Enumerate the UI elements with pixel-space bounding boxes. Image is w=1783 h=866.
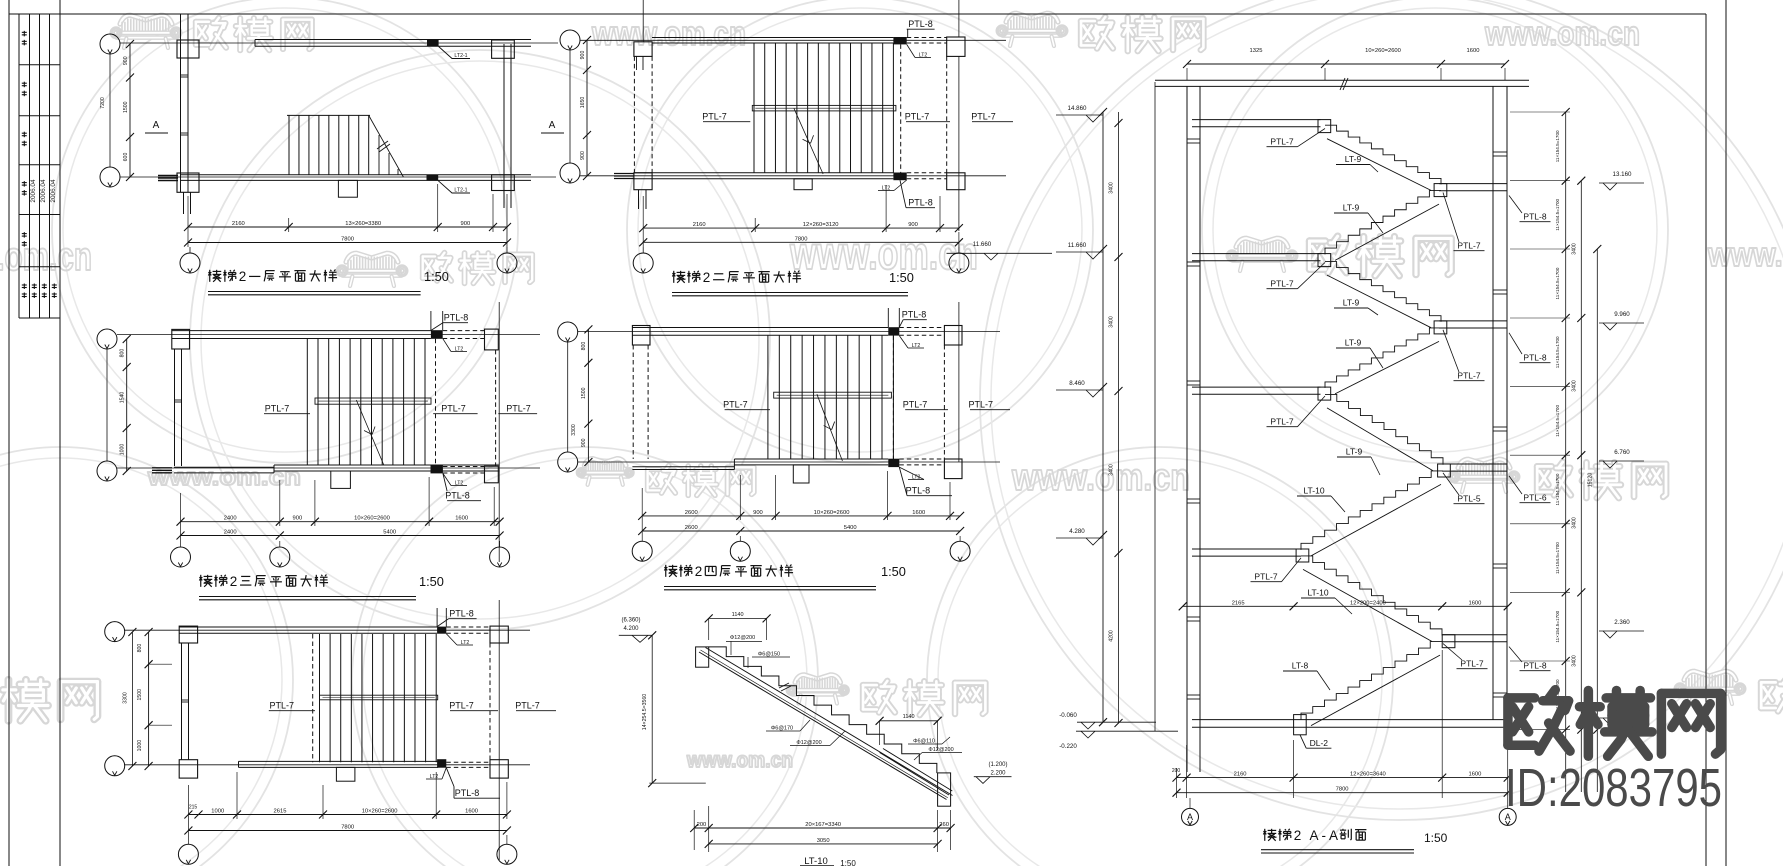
svg-text:2: 2 [239,269,247,284]
plan1 top axis line [120,42,558,44]
section landing 2 [1439,320,1507,322]
plan1 bottom-right column [492,175,515,191]
plan1 bottom axis line [120,176,556,178]
svg-text:900: 900 [580,151,586,160]
svg-text:3050: 3050 [817,838,830,844]
plan2 left wall dashed [633,56,635,172]
svg-text:2400: 2400 [224,530,237,536]
plan2 bottom black fill [893,173,906,181]
plan3 stair arrow [356,400,384,465]
svg-text:3400: 3400 [1109,464,1115,476]
svg-text:www.om.cn: www.om.cn [1484,15,1640,53]
svg-text:15120: 15120 [1588,473,1594,488]
svg-text:9.960: 9.960 [1614,311,1630,318]
section floor slab 4F [1192,119,1321,121]
svg-text:10×260=2600: 10×260=2600 [362,809,398,815]
svg-text:12×260=3640: 12×260=3640 [1350,772,1386,778]
plan4 top-left column [632,326,650,346]
plan1 overall dimension [188,242,507,244]
plan2 bottom axis line [580,175,1006,177]
svg-text:10×260=2600: 10×260=2600 [814,510,850,516]
sheet outer right edge [1725,0,1727,866]
svg-text:PTL-7: PTL-7 [449,701,474,711]
plan4 dashed stair edge [892,336,894,459]
svg-text:LT-9: LT-9 [1345,154,1362,164]
plan5 dashed bay right [489,643,491,760]
plan2 top-right column [947,37,965,56]
svg-text:PTL-8: PTL-8 [1523,353,1546,363]
plan2 top beam [652,37,893,39]
svg-text:Φ12@200: Φ12@200 [730,635,755,641]
plan3 axis circle bottom 2 [279,541,281,547]
plan4 bottom dashed continuation [899,458,944,460]
svg-text:PTL-7: PTL-7 [265,404,290,414]
section landing 1 [1439,183,1507,185]
svg-text:PTL-7: PTL-7 [971,112,996,122]
plan5 top-right column [490,626,508,643]
svg-text:LT-10: LT-10 [804,856,828,866]
section flight LT-9 f4 [1325,328,1441,388]
svg-text:3300: 3300 [571,424,577,436]
svg-text:7800: 7800 [341,237,354,243]
watermark row1 right sofa+text [1006,13,1058,22]
svg-text:PTL-7: PTL-7 [1460,659,1483,669]
plan3 bottom hatch left [152,467,172,469]
plan2 right axis line [958,0,960,37]
plan3 top-left column [172,329,190,349]
plan5 stair risers [319,634,321,762]
plan5 bottom stub column [336,767,355,781]
svg-text:PTL-7: PTL-7 [1457,371,1480,381]
plan4 verticals above black fill [887,308,889,327]
plan4 overall dimension [642,530,960,532]
svg-text:11×154.5=1700: 11×154.5=1700 [1555,336,1560,368]
watermark row3 right sofa+text [1458,459,1510,468]
svg-text:12×260=3120: 12×260=3120 [803,222,839,228]
svg-text:1500: 1500 [137,689,143,701]
plan5 bottom-left column [179,760,197,778]
plan2 left dimension line [586,40,588,176]
svg-text:3400: 3400 [1109,182,1115,194]
plan4 top black fill [888,327,899,335]
plan1 top-left column [177,40,199,58]
plan3 axis circle top-left [97,329,117,349]
plan4 dashed bay right [943,345,945,459]
plan3 axis circle bottom 1 [180,526,182,547]
detail bottom-left level line [649,782,706,784]
detail right dim 1140 [880,720,938,722]
svg-text:3400: 3400 [1572,517,1578,529]
section flight LT-10 f6 [1301,471,1443,550]
svg-text:www.om.cn: www.om.cn [1011,457,1190,499]
svg-text:Φ6@110: Φ6@110 [913,739,935,745]
section landing 4 [1442,634,1507,636]
svg-text:PTL-7: PTL-7 [1254,572,1277,582]
svg-text:PTL-8: PTL-8 [455,788,480,798]
plan5 left dimension line [148,632,150,766]
plan4 title [665,565,667,577]
plan4 stair risers [767,335,769,459]
svg-text:PTL-8: PTL-8 [908,19,933,29]
plan2 overall dimension [643,241,959,243]
svg-text:900: 900 [123,56,129,65]
section title [1264,829,1266,841]
svg-text:2: 2 [1294,828,1302,843]
plan2 top beam dashed continuation [907,37,947,39]
svg-text:2160: 2160 [693,222,706,228]
plan2 title [673,271,675,283]
svg-text:PTL-7: PTL-7 [1270,137,1293,147]
detail top landing block [696,647,709,667]
svg-text:10×260=2600: 10×260=2600 [354,516,390,522]
svg-text:PTL-7: PTL-7 [702,112,727,122]
plan1 title [209,270,211,282]
svg-text:800: 800 [581,342,587,351]
svg-text:13×260=3380: 13×260=3380 [345,221,381,227]
svg-text:LT-9: LT-9 [1343,203,1360,213]
svg-text:4.280: 4.280 [1069,528,1085,535]
svg-text:LT-10: LT-10 [1307,588,1328,598]
svg-text:7800: 7800 [341,825,354,831]
plan2 axis circle bottom 1 [642,247,644,253]
big watermark text 欧模网 [1508,690,1721,757]
svg-text:PTL-8: PTL-8 [445,491,470,501]
plan3 title [200,575,202,587]
svg-text:900: 900 [580,51,586,60]
svg-text:DL-2: DL-2 [1310,738,1329,748]
detail dim bottom line 1 [693,810,695,850]
plan3 top black fill [431,330,443,339]
section top dimension line [1187,63,1505,65]
plan4 top axis line [578,330,1000,332]
plan2 bottom-left column [634,173,652,190]
plan1 left wall [180,14,182,192]
plan5 dashed stair left edge [312,634,314,762]
plan5 axis circle bottom 1 [187,819,189,844]
section mid dimension line [1183,605,1508,607]
svg-text:11×154.5=1700: 11×154.5=1700 [1555,473,1560,505]
section flight LT-9 f5 [1325,394,1443,464]
plan5 mid rail [320,695,438,700]
plan5 top black fill [437,627,446,634]
plan5 bottom dashed continuation [446,761,490,763]
svg-text:1000: 1000 [211,809,224,815]
section flight LT-9 f3 [1325,262,1441,322]
svg-text:PTL-7: PTL-7 [903,400,928,410]
svg-text:A: A [549,120,556,131]
section left dimension line 2 [1154,82,1156,731]
plan3 axis circle bottom 3 [499,541,501,547]
plan3 left wall [174,349,176,466]
section flight LT-9 f2 [1325,191,1441,255]
plan1 axis circle top-left [100,34,120,54]
watermark row3 sofa+text [584,459,626,466]
svg-text:11×154.5=1700: 11×154.5=1700 [1555,405,1560,437]
plan1 dimension line 1 [187,196,189,232]
plan3 bottom-right column [485,466,499,483]
detail leader phi6 top [747,657,749,668]
svg-text:Φ6@170: Φ6@170 [771,726,793,732]
section bottom dimension line 2 [1177,792,1508,794]
plan3 stair risers [306,339,308,466]
svg-text:1600: 1600 [912,510,925,516]
svg-text:5400: 5400 [844,525,857,531]
plan4 bottom beam [734,458,888,460]
svg-text:2006.04: 2006.04 [40,179,47,203]
plan2 left axis line [569,50,571,163]
svg-text:11.660: 11.660 [1068,242,1087,249]
svg-text:8.460: 8.460 [1069,380,1085,387]
svg-text:1:50: 1:50 [1424,831,1448,845]
plan4 left dimension line [587,329,589,462]
svg-text:PTL-7: PTL-7 [441,404,466,414]
section right extension lines [1510,111,1570,113]
plan1 axis circle bottom 1 [189,247,191,253]
svg-text:www.om.cn: www.om.cn [591,15,746,53]
plan2 dashed stair edge [900,44,902,172]
plan1 cut risers [378,135,380,175]
plan2 dimension line 1 [642,196,644,232]
plan5 top dashed continuation [446,626,490,628]
svg-text:PTL-8: PTL-8 [902,310,927,320]
svg-text:2006.04: 2006.04 [30,179,37,203]
svg-text:11×154.5=1700: 11×154.5=1700 [1555,130,1560,162]
svg-text:PTL-8: PTL-8 [444,313,469,323]
svg-text:2160: 2160 [232,221,245,227]
plan3 top dashed continuation [443,330,485,332]
svg-text:-: - [1322,828,1327,843]
plan5 overall dimension [188,830,507,832]
title block bottom row marks [22,284,27,286]
plan4 axis circle bottom 2 [739,536,741,541]
plan1 leader LT2 bottom [438,181,470,193]
svg-text:PTL-7: PTL-7 [905,112,930,122]
plan3 axis circle bottom-left [97,461,117,481]
section bottom dimension line 1 [1176,768,1178,798]
plan3 top axis line [117,334,540,336]
svg-text:2600: 2600 [685,525,698,531]
section floor slab 3F [1192,253,1321,255]
svg-text:A: A [1329,828,1338,843]
plan3 overall dimension [181,535,500,537]
svg-text:www.om.cn: www.om.cn [686,749,793,772]
svg-text:900: 900 [581,438,587,447]
svg-text:LT-9: LT-9 [1345,338,1362,348]
plan2 axis circle bottom-left [560,163,580,183]
svg-text:1600: 1600 [455,516,468,522]
svg-text:1000: 1000 [120,444,126,456]
svg-text:1600: 1600 [465,809,478,815]
svg-text:2615: 2615 [274,809,287,815]
title block table [19,13,60,15]
svg-text:1600: 1600 [1468,600,1481,606]
svg-text:(1.200): (1.200) [988,762,1007,768]
plan3 bottom beam [274,464,500,466]
detail bottom block [938,773,951,806]
svg-text:11×154.5=1700: 11×154.5=1700 [1555,267,1560,299]
svg-text:LT-8: LT-8 [1292,661,1309,671]
sheet frame left inner line [59,0,61,866]
sheet frame left outer line [8,0,10,866]
plan5 right axis line [498,600,500,860]
plan3 right axis line [498,302,500,562]
plan4 axis circle top-left [558,322,578,342]
detail stair steps [709,647,937,773]
plan4 left axis line [567,342,569,452]
svg-text:PTL-7: PTL-7 [969,400,994,410]
plan2 top-left column [634,42,652,57]
svg-text:2165: 2165 [1232,600,1245,606]
svg-text:13.160: 13.160 [1613,171,1632,178]
svg-text:7200: 7200 [100,97,106,109]
svg-text:11×154.5=1700: 11×154.5=1700 [1555,542,1560,574]
plan5 bottom-right column [490,760,508,778]
plan4 axis circle bottom 3 [959,536,961,541]
svg-text:1325: 1325 [1250,48,1263,54]
detail dim bottom line 2 [709,843,938,845]
svg-text:260: 260 [939,822,949,828]
plan1 stair cut diagonal [369,115,404,177]
plan5 left wall [181,643,183,760]
svg-text:12×200=2400: 12×200=2400 [1350,600,1386,606]
plan4 bottom axis line [578,461,1000,463]
svg-text:2600: 2600 [685,510,698,516]
svg-text:PTL-6: PTL-6 [1523,493,1546,503]
svg-text:2.200: 2.200 [990,771,1006,777]
section top slab break symbol [1340,78,1345,90]
plan4 bottom stub column [793,465,809,483]
svg-text:2: 2 [230,574,238,589]
svg-text:LT-9: LT-9 [1343,298,1360,308]
section left dimension line [1102,112,1104,722]
svg-text:LT-9: LT-9 [1346,447,1363,457]
svg-text:PTL-7: PTL-7 [515,701,540,711]
svg-text:4200: 4200 [1109,630,1115,642]
svg-text:3400: 3400 [1572,655,1578,667]
svg-text:PTL-7: PTL-7 [270,701,295,711]
plan5 top beam [179,626,437,628]
svg-text:2.360: 2.360 [1614,619,1630,626]
plan4 mid rail [774,392,892,398]
plan2 mid rail [752,105,896,111]
plan2 bottom beam [634,172,893,174]
svg-text:900: 900 [461,221,471,227]
plan4 left wall dashed [632,345,634,459]
plan3 top-right column [485,329,499,350]
svg-text:PTL-7: PTL-7 [723,400,748,410]
section right dimension line 2 [1580,181,1582,792]
plan4 top-right column [944,326,962,346]
plan2 top axis line [580,39,1006,41]
svg-text:-0.060: -0.060 [1059,712,1077,719]
plan4 stair arrow [817,394,843,461]
plan4 top beam [632,327,888,329]
svg-text:2006.04: 2006.04 [50,179,57,203]
watermark row2 sofa+text [346,253,398,262]
svg-text:20×167=3340: 20×167=3340 [805,822,841,828]
plan2 axis circle bottom 2 [958,247,960,253]
svg-text:2400: 2400 [224,516,237,522]
svg-text:1650: 1650 [580,97,586,109]
plan1 axis circle bottom-left [100,167,120,187]
plan5 bottom beam [239,760,439,762]
svg-text:A: A [1187,812,1193,822]
svg-text:PTL-8: PTL-8 [449,609,474,619]
svg-text:1:50: 1:50 [424,269,449,284]
plan5 dimension line 1 [187,785,189,819]
plan5 axis circle bottom-left [105,756,125,776]
plan5 verticals above black fill [436,608,438,627]
section floor slab 2F [1192,386,1321,388]
svg-text:5400: 5400 [383,530,396,536]
svg-text:600: 600 [123,153,129,162]
sheet frame top border [9,13,1706,15]
svg-text:200: 200 [697,822,707,828]
svg-text:1000: 1000 [137,740,143,752]
watermark row4 right sofa cut [1684,671,1736,680]
svg-text:2160: 2160 [1234,772,1247,778]
plan1 leader LT2 top [439,47,470,59]
sheet frame right border [1705,14,1707,866]
plan2 stair risers [753,43,755,173]
plan3 left dimension line [126,339,128,471]
svg-text:1:50: 1:50 [840,859,856,866]
svg-text:1540: 1540 [120,392,126,404]
svg-text:1140: 1140 [903,714,915,720]
svg-text:PTL-5: PTL-5 [1457,494,1480,504]
svg-text:1:50: 1:50 [881,564,906,579]
plan3 bottom black fill [431,465,443,474]
plan3 left axis line [106,349,108,461]
section ground slab [1192,719,1508,721]
plan1 top beam black fill LT2 [427,39,439,46]
detail leader phi12 top [730,641,732,655]
plan2 bottom beam break dashes [614,173,634,175]
detail stringer band [699,652,947,800]
watermark sofa+text row1 left [120,15,172,24]
plan2 vertical axis above top-left column [642,0,644,42]
section flight LT-9 f1 [1325,125,1441,184]
plan3 dashed stair edge [435,339,437,465]
svg-text:1500: 1500 [581,387,587,399]
svg-text:7800: 7800 [1336,787,1349,793]
svg-text:10×260=2600: 10×260=2600 [1365,48,1401,54]
detail band break mark [779,683,789,688]
plan4 axis circle bottom 1 [641,520,643,541]
section landing 3 [1442,463,1507,465]
plan2 bottom stub column [794,179,812,190]
svg-text:7800: 7800 [795,236,808,242]
svg-text:LT2-1: LT2-1 [454,188,467,194]
section axis circle A right [1507,727,1509,808]
plan2 bottom-right column [947,173,965,190]
svg-text:1600: 1600 [1467,48,1480,54]
svg-text:3400: 3400 [1572,380,1578,392]
section right dimension line 1 [1565,112,1567,792]
svg-text:900: 900 [753,510,763,516]
svg-text:3300: 3300 [122,692,128,704]
plan5 top axis line [124,629,530,631]
svg-text:PTL-8: PTL-8 [1523,212,1546,222]
watermark arcs [52,0,518,463]
svg-text:1:50: 1:50 [889,270,914,285]
svg-text:215: 215 [189,805,198,811]
plan1 right wall [503,44,505,208]
svg-text:ID:2083795: ID:2083795 [1505,758,1722,818]
plan1 left axis line [109,54,111,167]
svg-text:LT-10: LT-10 [1303,486,1324,496]
plan4 bottom black fill [888,459,899,467]
